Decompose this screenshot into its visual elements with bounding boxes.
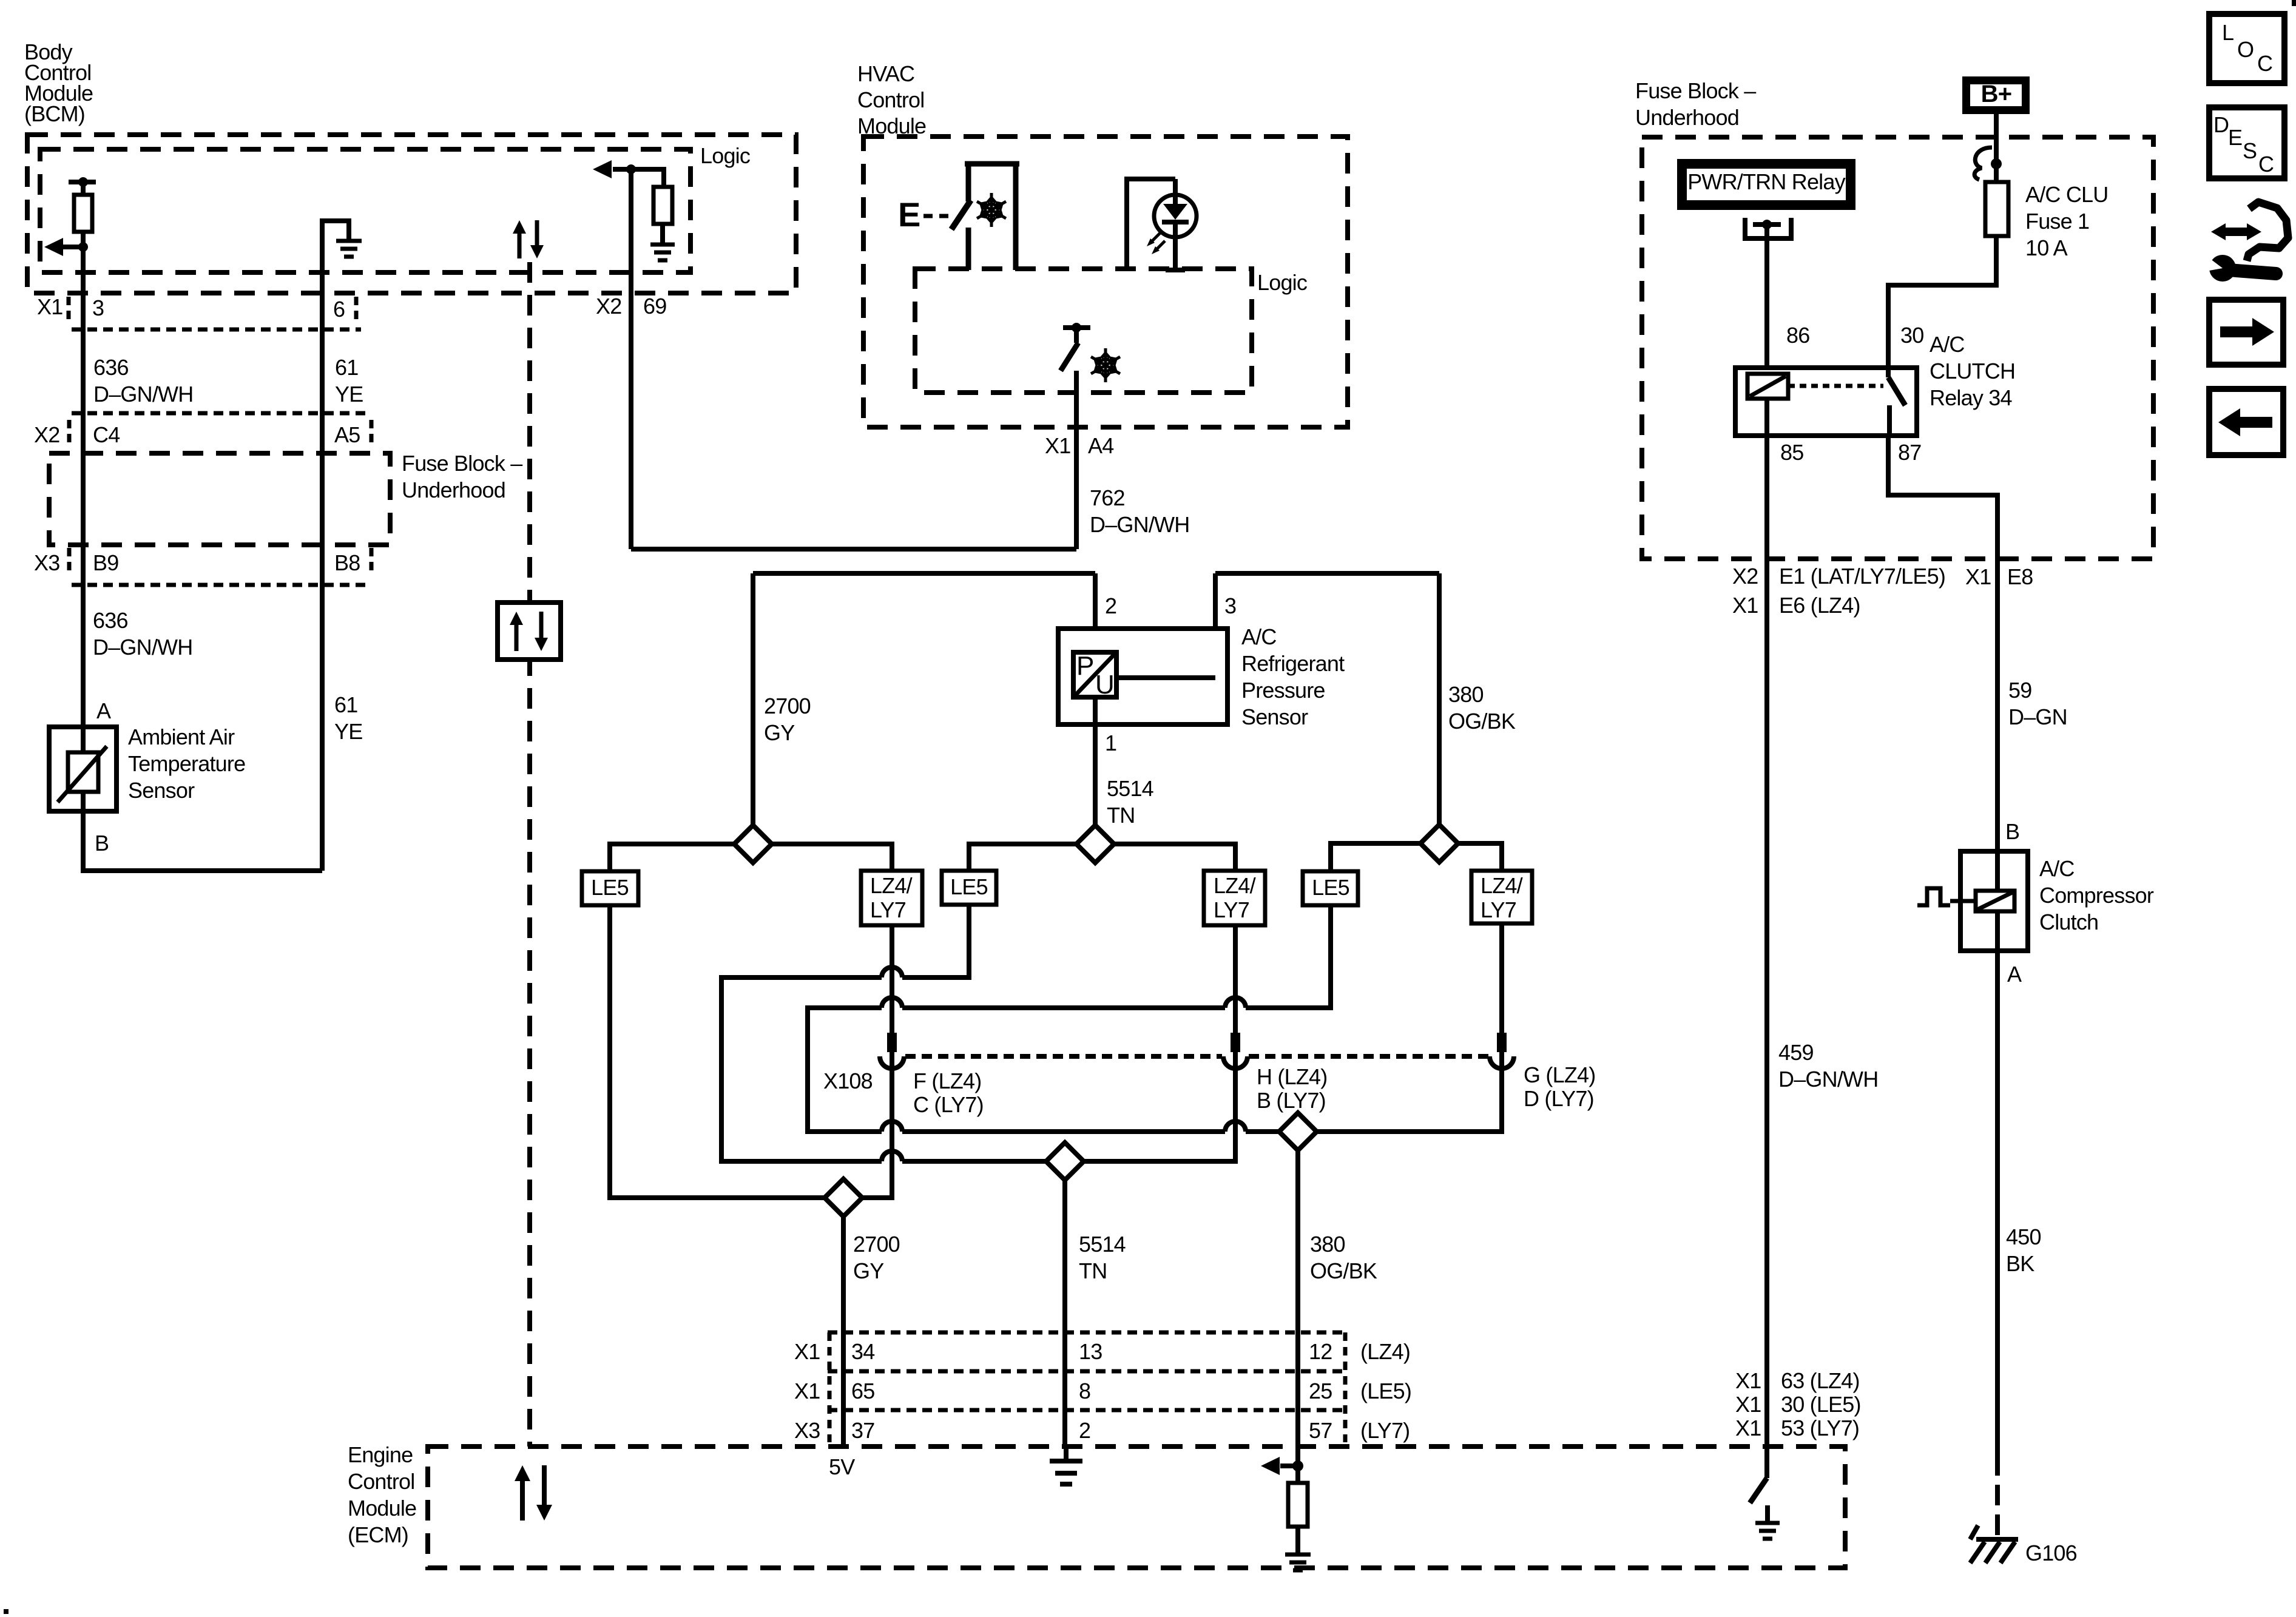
engine option box LE5 #2 — [942, 871, 996, 905]
svg-text:(ECM): (ECM) — [348, 1522, 408, 1547]
svg-text:57: 57 — [1309, 1418, 1332, 1443]
wire 450 BK — [1995, 951, 2000, 1455]
svg-text:A5: A5 — [334, 422, 360, 447]
svg-text:X2: X2 — [1732, 564, 1758, 589]
svg-text:D–GN/WH: D–GN/WH — [1778, 1067, 1878, 1092]
svg-text:P: P — [1076, 651, 1094, 681]
wire LE5#2 routing (A-V1-H path) — [902, 905, 969, 977]
svg-text:59: 59 — [2008, 678, 2031, 703]
relay switch — [1886, 368, 1891, 377]
svg-text:A: A — [2007, 962, 2022, 987]
LOC sidebar box — [2209, 14, 2284, 83]
svg-text:S: S — [2243, 138, 2257, 163]
A/C request switch box — [965, 161, 1019, 167]
svg-text:A4: A4 — [1088, 433, 1113, 458]
svg-text:2: 2 — [1079, 1418, 1090, 1443]
svg-text:X3: X3 — [794, 1418, 820, 1443]
svg-text:BK: BK — [2006, 1251, 2034, 1276]
svg-text:G106: G106 — [2025, 1541, 2077, 1565]
dotted tick after X1 — [67, 297, 71, 324]
svg-text:636: 636 — [93, 355, 129, 380]
svg-text:X1: X1 — [1735, 1392, 1761, 1417]
LED wire — [1173, 179, 1178, 270]
ground (ECM 380) — [1285, 1555, 1311, 1570]
svg-text:X2: X2 — [34, 422, 59, 447]
S2 right branch — [1114, 844, 1235, 871]
dotted row bottom line — [72, 328, 361, 332]
svg-text:U: U — [1095, 670, 1114, 700]
svg-text:LZ4/: LZ4/ — [870, 873, 913, 898]
LED light arrows — [1152, 233, 1160, 241]
P/U transducer box — [1073, 652, 1116, 697]
BCM module dashed box — [27, 135, 796, 293]
splice diamond S4 (2700 lower) — [825, 1179, 862, 1217]
wire 762 from logic switch down to A4 — [1074, 371, 1079, 549]
wire through sensor — [83, 727, 322, 871]
wire 2700 to ECM — [841, 1217, 846, 1447]
svg-text:1: 1 — [1105, 731, 1116, 755]
thermistor symbol — [68, 752, 98, 792]
svg-text:(LE5): (LE5) — [1360, 1379, 1411, 1403]
LED diode symbol — [1163, 204, 1187, 220]
wiring repair icon (arrow + wrench) — [2220, 228, 2252, 236]
wire 2700 vertical upper — [751, 573, 755, 825]
wire from pin 87 — [1888, 436, 1997, 851]
dashed wire to G106 — [1995, 1455, 2000, 1537]
svg-text:Control: Control — [857, 87, 924, 112]
BCM inner logic dashed box — [40, 149, 690, 272]
resistor R-BCM2 — [653, 187, 672, 224]
node junction on wire 636 — [78, 242, 88, 252]
B+ power feed box — [1962, 76, 2030, 114]
svg-text:5V: 5V — [829, 1454, 855, 1479]
node dot on terminal — [1072, 323, 1081, 333]
signal arrow to left (wire 762) — [613, 167, 631, 172]
svg-text:GY: GY — [853, 1258, 884, 1283]
svg-text:YE: YE — [334, 719, 362, 744]
svg-text:PWR/TRN Relay: PWR/TRN Relay — [1687, 169, 1845, 194]
svg-text:Relay 34: Relay 34 — [1930, 385, 2012, 410]
svg-text:X1: X1 — [794, 1379, 820, 1403]
clutch coil — [1976, 891, 2014, 911]
svg-text:C: C — [2258, 152, 2274, 177]
wire 636 BCM pin 3 down — [81, 247, 86, 727]
svg-text:459: 459 — [1778, 1040, 1814, 1065]
svg-text:Clutch: Clutch — [2039, 910, 2098, 934]
wire LZ4/LY7#3 down (X108 G/D) — [1317, 923, 1502, 1132]
HVAC module dashed box — [863, 137, 1348, 427]
svg-text:(LZ4): (LZ4) — [1360, 1339, 1410, 1364]
splice diamond S5 (5514 lower) — [1046, 1143, 1084, 1180]
svg-text:X1: X1 — [1045, 433, 1070, 458]
Fuse Block Underhood (left) dashed box — [49, 453, 390, 545]
signal arrow to left (BCM) — [63, 245, 83, 249]
svg-text:LE5: LE5 — [950, 874, 988, 899]
svg-text:A/C: A/C — [1241, 624, 1277, 649]
svg-text:(LY7): (LY7) — [1360, 1418, 1410, 1443]
svg-text:61: 61 — [335, 355, 358, 380]
svg-text:TN: TN — [1079, 1258, 1107, 1283]
engine option box LE5 #1 — [582, 871, 638, 905]
node dot top of R-BCM1 — [78, 177, 88, 187]
svg-text:636: 636 — [93, 608, 128, 633]
svg-text:C4: C4 — [93, 422, 120, 447]
wire 459 from pin 85 — [1764, 436, 1769, 1447]
right-arrow sidebar box — [2209, 300, 2283, 365]
S3 left branch — [1331, 843, 1420, 871]
svg-text:Fuse Block –: Fuse Block – — [402, 451, 522, 476]
pin 1 wire — [1093, 697, 1098, 825]
DESC sidebar box — [2209, 107, 2284, 178]
Fuse Block Underhood (right) dashed box — [1642, 137, 2153, 559]
svg-text:D: D — [2213, 112, 2229, 137]
node junction (BCM logic, wire 762) — [626, 164, 636, 174]
svg-text:Fuse Block –: Fuse Block – — [1635, 78, 1756, 103]
LED wire end T-bar — [1166, 268, 1185, 272]
snowflake (logic switch) — [1091, 348, 1120, 382]
svg-text:E1 (LAT/LY7/LE5): E1 (LAT/LY7/LE5) — [1779, 564, 1945, 589]
svg-text:OG/BK: OG/BK — [1448, 709, 1516, 734]
svg-text:E8: E8 — [2007, 564, 2033, 589]
LED circle — [1154, 195, 1197, 237]
dashed actuate link from E — [923, 214, 949, 218]
page corner tick top-right — [2292, 0, 2296, 6]
svg-text:CLUTCH: CLUTCH — [1930, 359, 2015, 383]
dotted line above X2 row — [72, 411, 371, 416]
svg-text:B: B — [95, 831, 109, 856]
svg-text:6: 6 — [333, 297, 345, 322]
svg-text:Compressor: Compressor — [2039, 883, 2154, 908]
logic switch terminal bar — [1063, 325, 1090, 330]
wire LZ4/LY7#2 down (X108 H/B) — [1084, 925, 1235, 1161]
svg-text:5514: 5514 — [1079, 1232, 1126, 1257]
svg-text:A/C CLU: A/C CLU — [2025, 182, 2108, 207]
wire LE5#1 to splice S4 — [610, 905, 825, 1198]
relay coil — [1747, 374, 1788, 399]
svg-text:LE5: LE5 — [1312, 875, 1349, 900]
svg-text:65: 65 — [851, 1379, 874, 1403]
svg-text:B+: B+ — [1981, 81, 2012, 107]
svg-text:TN: TN — [1107, 803, 1135, 828]
svg-text:X1: X1 — [1965, 564, 1991, 589]
svg-text:HVAC: HVAC — [857, 61, 914, 86]
ground (ECM 459) — [1755, 1523, 1780, 1539]
svg-text:Sensor: Sensor — [128, 778, 195, 803]
svg-text:B8: B8 — [334, 550, 360, 575]
wire fuse to relay pin 30 — [1888, 236, 1996, 368]
svg-text:3: 3 — [1224, 593, 1236, 618]
svg-text:Logic: Logic — [700, 143, 751, 168]
splice diamond S6 (380 lower) — [1279, 1113, 1317, 1150]
page corner dot — [4, 1609, 8, 1614]
svg-text:H (LZ4): H (LZ4) — [1257, 1064, 1327, 1089]
X108 dashed connector line — [905, 1054, 1222, 1059]
svg-text:8: 8 — [1079, 1379, 1090, 1403]
svg-text:D–GN: D–GN — [2008, 704, 2067, 729]
svg-text:A/C: A/C — [2039, 856, 2075, 881]
engine option box LZ4/LY7 #2 — [1204, 871, 1265, 925]
svg-text:YE: YE — [335, 382, 363, 407]
svg-text:Ambient Air: Ambient Air — [128, 724, 235, 749]
transducer internal link — [1116, 675, 1215, 680]
left-arrow sidebar box — [2209, 389, 2283, 455]
X108 pin stub F/C — [887, 1033, 897, 1052]
svg-text:Pressure: Pressure — [1241, 678, 1325, 703]
engine option box LZ4/LY7 #3 — [1471, 871, 1532, 923]
svg-text:Control: Control — [348, 1469, 414, 1494]
svg-text:D (LY7): D (LY7) — [1524, 1086, 1594, 1111]
wire 380 to ECM — [1295, 1150, 1300, 1466]
svg-text:D–GN/WH: D–GN/WH — [1090, 512, 1189, 537]
svg-text:OG/BK: OG/BK — [1310, 1258, 1377, 1283]
A/C request switch blade — [951, 200, 971, 229]
ECM row dotted frame — [828, 1331, 1345, 1335]
svg-text:C: C — [2257, 51, 2272, 76]
dotted tick after pin 6 — [354, 297, 359, 324]
svg-text:Module: Module — [348, 1496, 416, 1521]
engine option box LZ4/LY7 #1 — [861, 871, 922, 925]
snowflake (A/C request) — [977, 193, 1006, 227]
svg-text:30 (LE5): 30 (LE5) — [1781, 1392, 1861, 1417]
pull-down resistor (ECM) — [1295, 1466, 1300, 1483]
wire 762 horizontal run — [631, 547, 1076, 552]
svg-text:12: 12 — [1309, 1339, 1332, 1364]
svg-text:X2: X2 — [596, 294, 621, 319]
pull-up resistor branch — [631, 169, 664, 187]
svg-text:37: 37 — [851, 1418, 874, 1443]
engine option box LE5 #3 — [1303, 871, 1358, 905]
battery tap hook — [1974, 147, 1992, 180]
S1 left branch to LE5 — [610, 844, 734, 871]
svg-text:69: 69 — [643, 294, 666, 319]
svg-text:Refrigerant: Refrigerant — [1241, 651, 1345, 676]
wire 636 inside BCM (x=137) — [81, 182, 86, 247]
svg-text:2700: 2700 — [764, 694, 811, 718]
svg-text:F (LZ4): F (LZ4) — [913, 1068, 981, 1093]
svg-text:LY7: LY7 — [1214, 897, 1249, 922]
serial data dashed wire — [527, 262, 532, 1447]
wire 5514 to ECM — [1062, 1180, 1067, 1447]
svg-text:E: E — [898, 195, 920, 234]
svg-text:X108: X108 — [823, 1068, 873, 1093]
svg-text:B (LY7): B (LY7) — [1257, 1088, 1326, 1113]
ground (BCM internal) — [336, 241, 362, 257]
svg-text:LY7: LY7 — [870, 897, 906, 922]
svg-text:3: 3 — [92, 295, 104, 320]
dotted tick after B8 — [370, 548, 374, 575]
Ambient Air Temperature Sensor box — [49, 727, 116, 811]
svg-text:LZ4/: LZ4/ — [1214, 873, 1256, 898]
wire 380 top horizontal — [1215, 571, 1439, 576]
wire through clutch — [1995, 851, 2000, 951]
wire from B+ — [1994, 114, 1999, 182]
svg-text:D–GN/WH: D–GN/WH — [93, 382, 193, 407]
svg-text:Underhood: Underhood — [1635, 105, 1739, 130]
X108 pin stub G/D — [1497, 1033, 1507, 1052]
wire LZ4/LY7#1 down (X108 F/C) — [862, 925, 892, 1198]
svg-text:25: 25 — [1309, 1379, 1332, 1403]
HVAC logic dashed box — [915, 269, 1252, 393]
svg-text:Sensor: Sensor — [1241, 704, 1308, 729]
wire to ground below R-BCM2 — [660, 224, 665, 245]
svg-text:GY: GY — [764, 720, 795, 745]
A/C CLUTCH Relay 34 box — [1735, 368, 1917, 436]
relay actuate dashed link — [1788, 384, 1883, 388]
svg-text:380: 380 — [1310, 1232, 1345, 1257]
svg-text:B9: B9 — [93, 550, 118, 575]
svg-text:53 (LY7): 53 (LY7) — [1781, 1416, 1859, 1440]
svg-text:B: B — [2005, 819, 2019, 844]
svg-text:A/C: A/C — [1930, 332, 1965, 357]
svg-text:O: O — [2237, 37, 2254, 62]
svg-text:450: 450 — [2006, 1224, 2041, 1249]
svg-text:X1: X1 — [1735, 1416, 1761, 1440]
S2 left branch — [969, 844, 1076, 871]
svg-text:E6 (LZ4): E6 (LZ4) — [1779, 593, 1860, 618]
svg-text:87: 87 — [1898, 440, 1921, 465]
dotted row bottom line (X3 row) — [72, 583, 371, 587]
dotted tick after X2 — [67, 420, 72, 447]
dotted tick after X3 — [67, 548, 72, 575]
logic switch blade — [1061, 343, 1078, 371]
svg-text:A: A — [96, 698, 111, 723]
signal arrow left (380) — [1280, 1463, 1298, 1468]
svg-text:Engine: Engine — [348, 1442, 413, 1467]
svg-text:Temperature: Temperature — [128, 751, 245, 776]
svg-text:86: 86 — [1786, 323, 1809, 348]
clutch mechanical link — [1917, 888, 1950, 905]
A/C Compressor Clutch box — [1960, 851, 2028, 951]
svg-text:C (LY7): C (LY7) — [913, 1092, 984, 1117]
svg-text:380: 380 — [1448, 682, 1484, 707]
svg-text:X1: X1 — [37, 294, 62, 319]
svg-text:13: 13 — [1079, 1339, 1102, 1364]
relay feed bracket — [1745, 218, 1791, 238]
A/C Refrigerant Pressure Sensor box — [1058, 629, 1227, 724]
X108 pin stub H/B — [1231, 1033, 1240, 1052]
svg-text:(BCM): (BCM) — [24, 101, 85, 126]
svg-text:762: 762 — [1090, 485, 1125, 510]
up/down serial data arrows (BCM) — [518, 230, 522, 258]
svg-text:G (LZ4): G (LZ4) — [1524, 1062, 1595, 1087]
wire 2700 top horizontal — [753, 571, 1095, 576]
ground at ECM (5514) — [1064, 1447, 1069, 1461]
wire 380 vertical upper — [1437, 573, 1442, 825]
wire 762 down from BCM — [629, 169, 633, 549]
svg-text:X1: X1 — [1732, 593, 1758, 618]
wire relay feed to pin 86 — [1764, 229, 1769, 368]
svg-text:2700: 2700 — [853, 1232, 900, 1257]
dotted tick after A5 — [370, 420, 374, 447]
svg-text:85: 85 — [1780, 440, 1803, 465]
ECM module dashed box — [428, 1447, 1845, 1568]
serial data node box — [498, 603, 561, 660]
svg-text:2: 2 — [1105, 593, 1116, 618]
S1 right branch to LZ4/LY7 — [772, 844, 892, 871]
resistor R-BCM1 top bar — [69, 180, 96, 184]
svg-text:L: L — [2222, 20, 2234, 45]
ECM serial data arrows — [520, 1477, 525, 1521]
svg-text:63 (LZ4): 63 (LZ4) — [1781, 1368, 1860, 1393]
svg-text:Fuse 1: Fuse 1 — [2025, 209, 2089, 234]
S3 right branch — [1458, 843, 1502, 871]
PWR/TRN Relay label box — [1677, 159, 1855, 210]
svg-text:Underhood: Underhood — [402, 478, 505, 502]
svg-text:X3: X3 — [34, 550, 59, 575]
svg-text:30: 30 — [1900, 323, 1923, 348]
ground G106 symbol — [1976, 1537, 2018, 1542]
pin 3 wire — [1213, 573, 1218, 678]
logic switch stub — [1074, 328, 1079, 343]
wire to ground (ECM 380) — [1295, 1527, 1300, 1555]
svg-text:5514: 5514 — [1107, 776, 1153, 801]
svg-text:X1: X1 — [1735, 1368, 1761, 1393]
A/C CLU Fuse 1 — [1985, 182, 2008, 236]
ground (BCM logic) — [650, 245, 675, 260]
svg-text:61: 61 — [334, 692, 357, 717]
node junction (380 at ECM) — [1292, 1460, 1303, 1471]
svg-text:E: E — [2228, 125, 2242, 150]
svg-text:X1: X1 — [794, 1339, 820, 1364]
svg-text:LY7: LY7 — [1481, 897, 1516, 922]
svg-text:Logic: Logic — [1257, 270, 1308, 295]
svg-text:LZ4/: LZ4/ — [1481, 873, 1523, 898]
wire LE5#3 routing (B-V2-D path) — [1246, 905, 1331, 1008]
svg-text:LE5: LE5 — [591, 875, 629, 900]
ECM ground switch (459) — [1764, 1447, 1769, 1478]
svg-text:34: 34 — [851, 1339, 874, 1364]
resistor R-BCM1 — [74, 195, 92, 232]
relay coil wire to pin 85 — [1764, 399, 1769, 436]
BCM internal ground wire (pin 6) — [322, 221, 349, 871]
LED indicator bracket — [1127, 179, 1175, 270]
svg-text:D–GN/WH: D–GN/WH — [93, 635, 192, 660]
svg-text:10 A: 10 A — [2025, 235, 2068, 260]
pin 2 wire into sensor — [1093, 573, 1098, 652]
